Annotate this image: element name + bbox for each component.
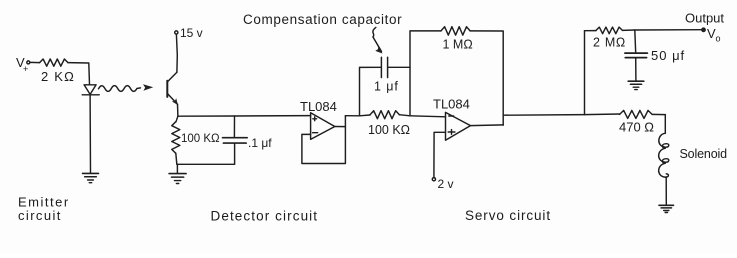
op-amp U1 TL084 [300, 99, 337, 139]
wire to op-amp U2 - input [410, 116, 446, 117]
label Emitter circuit [18, 195, 70, 224]
label Servo circuit [465, 208, 551, 223]
svg-text:100 KΩ: 100 KΩ [368, 123, 410, 137]
wire V+ to R1 [30, 61, 40, 63]
label Compensation capacitor [243, 12, 402, 54]
svg-text:470 Ω: 470 Ω [619, 120, 654, 135]
svg-text:TL084: TL084 [300, 99, 337, 114]
resistor 2 MΩ [585, 27, 626, 49]
svg-text:1 μf: 1 μf [374, 80, 399, 94]
terminal 15 V [175, 26, 203, 40]
resistor 100 KΩ (detector) [172, 116, 220, 164]
svg-text:2 v: 2 v [438, 177, 454, 191]
svg-text:1 MΩ: 1 MΩ [443, 37, 473, 51]
wire U1 output [335, 126, 346, 128]
wire 470Ω down to solenoid [664, 115, 666, 134]
capacitor 50 μf [625, 30, 685, 81]
resistor 470 Ω [619, 110, 665, 134]
terminal Output V0 [685, 11, 724, 44]
ground (solenoid) [659, 205, 674, 212]
inductor Solenoid [659, 133, 727, 177]
wire main output rail [503, 114, 619, 115]
svg-text:Solenoid: Solenoid [680, 147, 728, 161]
wire branch up to 2 MΩ [584, 31, 586, 115]
wire 2MΩ to output terminal [622, 29, 702, 32]
LED D1 [82, 85, 99, 95]
svg-text:Detector circuit: Detector circuit [211, 209, 319, 224]
light arrow (LED to phototransistor) [99, 84, 154, 91]
wire U1 output rail [345, 114, 370, 117]
terminal V+ [16, 55, 30, 74]
wire emitter to node [177, 104, 179, 116]
svg-text:Output: Output [685, 11, 724, 26]
svg-text:.1 μf: .1 μf [248, 136, 272, 150]
svg-text:2 MΩ: 2 MΩ [593, 36, 626, 50]
phototransistor Q1 [167, 72, 178, 105]
op-amp U2 TL084 [433, 97, 471, 141]
svg-text:Servo circuit: Servo circuit [465, 208, 551, 223]
ground (emitter) [83, 173, 99, 182]
svg-text:100 KΩ: 100 KΩ [181, 133, 220, 145]
wire R1 to LED [68, 63, 90, 85]
svg-text:50 μf: 50 μf [651, 48, 685, 63]
resistor R1 2 KΩ [40, 59, 75, 84]
wire U2 output [471, 124, 504, 127]
svg-text:TL084: TL084 [433, 97, 470, 112]
svg-text:+: + [23, 64, 28, 74]
svg-text:o: o [716, 34, 721, 44]
capacitor 1 μf compensation branch [360, 57, 411, 116]
ground (detector) [169, 174, 186, 184]
ground (50 μf) [628, 81, 644, 89]
resistor 1 MΩ feedback [410, 27, 503, 126]
wire U1 feedback loop [302, 116, 346, 164]
wire LED to ground [89, 95, 91, 173]
terminal 2 V [432, 132, 453, 191]
capacitor .1 μf (detector) [223, 116, 273, 164]
wire solenoid to ground [665, 177, 667, 205]
wire 15V to collector [175, 34, 178, 72]
svg-text:Compensation capacitor: Compensation capacitor [243, 12, 402, 27]
svg-text:15 v: 15 v [180, 26, 203, 40]
label Detector circuit [211, 209, 319, 224]
svg-text:circuit: circuit [18, 208, 62, 223]
resistor 100 KΩ (servo input) [368, 111, 410, 137]
wire node to op-amp U1 + input [178, 115, 311, 118]
svg-text:2 KΩ: 2 KΩ [41, 69, 75, 84]
wire detector bottom rail [177, 164, 235, 173]
